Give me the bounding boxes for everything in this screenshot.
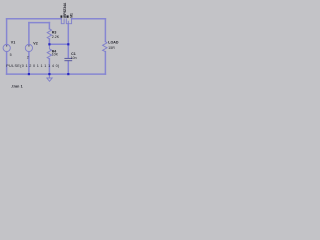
capacitor C1 bottom plate bbox=[65, 60, 72, 62]
svg-text:2.2K: 2.2K bbox=[52, 35, 60, 39]
svg-text:M1: M1 bbox=[69, 13, 73, 18]
resistor R4 bbox=[47, 44, 51, 59]
svg-text:.tran 1: .tran 1 bbox=[11, 84, 23, 88]
capacitor C1 top plate bbox=[65, 57, 72, 59]
svg-text:10K: 10K bbox=[52, 53, 59, 57]
text blob bbox=[61, 15, 63, 17]
wire V2 top horizontal bbox=[29, 22, 50, 24]
wire top rail right bbox=[72, 18, 106, 20]
resistor LOAD bbox=[103, 42, 107, 52]
wire top rail left bbox=[7, 18, 62, 20]
wire V2 vertical bbox=[28, 23, 30, 75]
svg-text:V1: V1 bbox=[11, 41, 15, 45]
svg-text:V2: V2 bbox=[33, 41, 37, 45]
svg-text:R3: R3 bbox=[52, 30, 57, 34]
svg-text:LOAD: LOAD bbox=[108, 41, 119, 45]
wire mid horizontal node bbox=[49, 43, 68, 45]
wire right vertical bbox=[104, 19, 106, 74]
ground bbox=[47, 74, 52, 81]
plus sign V2 bbox=[28, 45, 29, 46]
wire gate vertical bbox=[67, 24, 69, 58]
voltage source V2 bbox=[25, 44, 32, 51]
node junction dots bbox=[28, 43, 70, 75]
svg-text:10n: 10n bbox=[71, 56, 77, 60]
svg-text:IRF9Z34A: IRF9Z34A bbox=[63, 2, 67, 18]
mosfet M1 body right bbox=[66, 19, 71, 24]
wire left vertical bbox=[6, 19, 8, 74]
voltage source V1 bbox=[3, 44, 10, 51]
svg-text:2: 2 bbox=[27, 55, 29, 59]
wire R4 bottom lead bbox=[48, 59, 50, 74]
svg-text:5: 5 bbox=[10, 53, 12, 57]
mosfet M1 gate tick bbox=[67, 21, 69, 23]
svg-text:PULSE(0 1 2 0 1 1 1 1 4 0): PULSE(0 1 2 0 1 1 1 1 4 0) bbox=[6, 64, 60, 68]
wire bottom rail bbox=[7, 73, 106, 75]
wire R3 bottom lead bbox=[48, 39, 50, 44]
mosfet M1 body left bbox=[61, 19, 64, 24]
wire C1 bottom lead bbox=[67, 61, 69, 74]
wire R3 top lead bbox=[48, 23, 50, 29]
text blob 2 bbox=[67, 15, 69, 17]
svg-text:15R: 15R bbox=[108, 46, 115, 50]
resistor R3 bbox=[47, 29, 51, 39]
plus sign V1 bbox=[6, 45, 7, 46]
